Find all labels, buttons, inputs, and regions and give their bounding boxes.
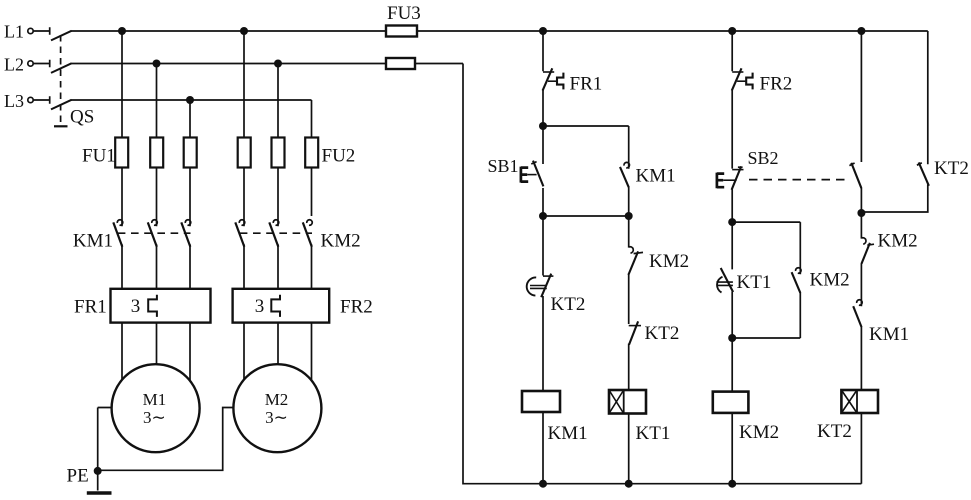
svg-text:KT1: KT1 <box>737 272 772 293</box>
svg-text:SB2: SB2 <box>748 148 779 168</box>
svg-text:KM2: KM2 <box>739 422 779 443</box>
svg-text:M2: M2 <box>265 390 289 409</box>
svg-text:KT2: KT2 <box>817 421 852 442</box>
svg-text:FR1: FR1 <box>570 74 603 95</box>
svg-text:KM2: KM2 <box>649 251 689 272</box>
svg-text:KM1: KM1 <box>548 423 588 444</box>
svg-text:FU2: FU2 <box>322 146 356 167</box>
svg-text:KM2: KM2 <box>810 270 850 291</box>
svg-text:KM2: KM2 <box>321 231 361 252</box>
svg-text:KT2: KT2 <box>551 294 586 315</box>
svg-text:3: 3 <box>255 296 265 317</box>
svg-text:KT2: KT2 <box>934 158 969 179</box>
svg-text:KT1: KT1 <box>636 423 671 444</box>
svg-text:L3: L3 <box>4 91 24 111</box>
svg-text:L2: L2 <box>4 55 24 75</box>
svg-text:M1: M1 <box>143 390 167 409</box>
svg-text:3: 3 <box>131 296 141 317</box>
svg-text:FR2: FR2 <box>760 74 793 95</box>
svg-text:KM2: KM2 <box>878 231 918 252</box>
svg-text:QS: QS <box>70 107 94 128</box>
svg-text:KM1: KM1 <box>73 231 113 252</box>
svg-text:L1: L1 <box>4 22 24 42</box>
svg-text:PE: PE <box>67 466 89 487</box>
svg-text:FR2: FR2 <box>340 297 373 318</box>
svg-text:KM1: KM1 <box>636 166 676 187</box>
svg-text:3∼: 3∼ <box>143 408 166 427</box>
svg-text:3∼: 3∼ <box>265 408 288 427</box>
svg-text:FU3: FU3 <box>387 3 421 24</box>
svg-text:FR1: FR1 <box>74 297 107 318</box>
svg-text:KT2: KT2 <box>645 323 680 344</box>
svg-text:KM1: KM1 <box>869 324 909 345</box>
svg-text:SB1: SB1 <box>488 156 519 176</box>
svg-text:FU1: FU1 <box>82 146 116 167</box>
